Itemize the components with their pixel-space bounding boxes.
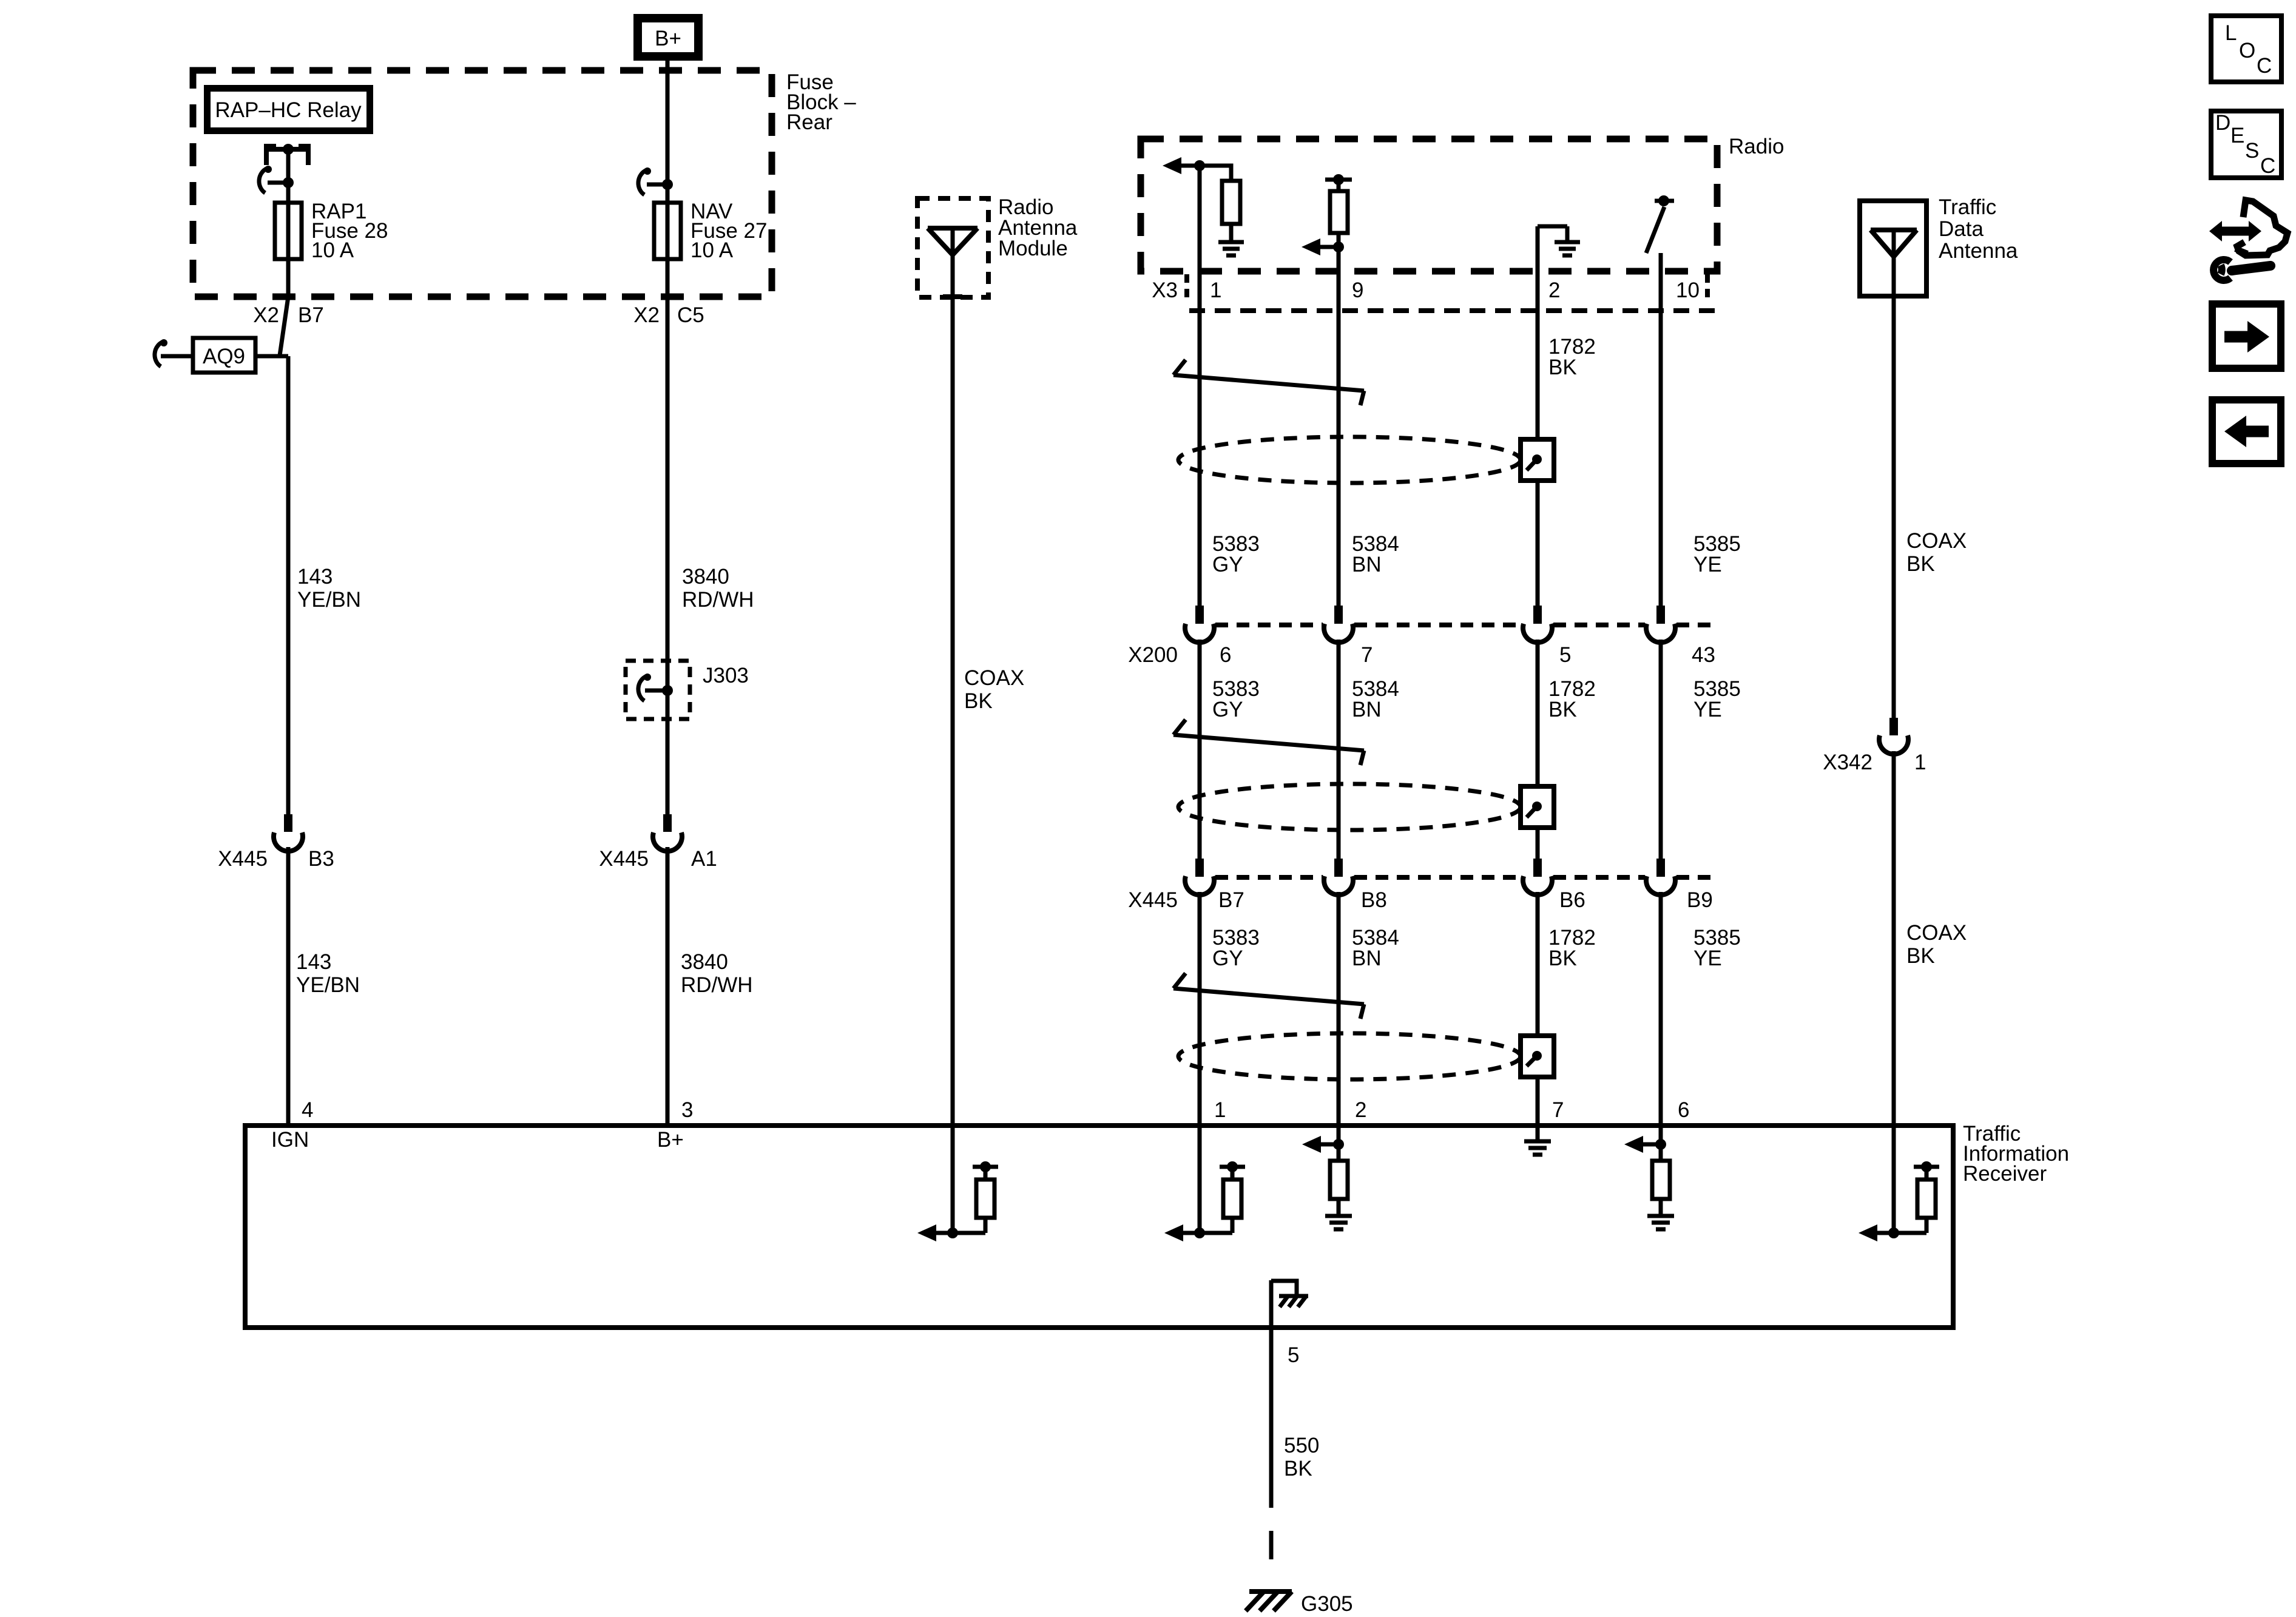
svg-text:5: 5 [1559,643,1571,667]
svg-text:Receiver: Receiver [1963,1162,2047,1186]
svg-text:1: 1 [1210,279,1221,302]
svg-text:YE/BN: YE/BN [297,588,361,612]
svg-text:Rear: Rear [786,110,832,134]
svg-text:GY: GY [1212,553,1243,576]
svg-text:Module: Module [998,237,1068,260]
svg-text:10: 10 [1676,279,1700,302]
svg-text:A1: A1 [691,847,717,871]
svg-text:9: 9 [1352,279,1363,302]
svg-text:7: 7 [1552,1098,1564,1122]
svg-text:B9: B9 [1687,888,1713,912]
svg-text:YE: YE [1693,947,1722,970]
svg-text:143: 143 [297,565,333,589]
svg-text:Traffic: Traffic [1939,195,1996,219]
svg-text:BK: BK [964,689,993,713]
svg-text:1: 1 [1914,751,1926,774]
svg-text:C: C [2257,54,2272,78]
svg-text:BK: BK [1906,944,1935,968]
svg-text:YE: YE [1693,698,1722,721]
svg-text:143: 143 [296,950,331,974]
svg-text:S: S [2245,139,2259,163]
svg-text:E: E [2230,124,2244,147]
svg-text:1: 1 [1214,1098,1226,1122]
svg-text:O: O [2239,39,2255,62]
svg-text:3840: 3840 [681,950,728,974]
svg-text:6: 6 [1678,1098,1689,1122]
svg-text:D: D [2215,111,2230,135]
svg-text:J303: J303 [703,664,749,687]
svg-text:YE: YE [1693,553,1722,576]
svg-text:X445: X445 [599,847,649,871]
svg-text:10 A: 10 A [690,238,734,262]
svg-text:RD/WH: RD/WH [682,588,754,612]
svg-text:BK: BK [1548,356,1577,379]
svg-text:BN: BN [1352,698,1382,721]
svg-text:GY: GY [1212,698,1243,721]
svg-text:B3: B3 [308,847,334,871]
svg-text:X342: X342 [1823,751,1872,774]
svg-text:L: L [2225,21,2237,45]
svg-text:5: 5 [1288,1343,1299,1367]
svg-text:BK: BK [1548,698,1577,721]
svg-text:X445: X445 [218,847,268,871]
svg-text:G305: G305 [1301,1592,1353,1616]
svg-text:B8: B8 [1361,888,1387,912]
svg-text:BK: BK [1548,947,1577,970]
svg-text:BN: BN [1352,947,1382,970]
svg-text:550: 550 [1284,1434,1319,1457]
svg-text:YE/BN: YE/BN [296,973,360,997]
svg-text:BK: BK [1906,552,1935,576]
svg-text:7: 7 [1361,643,1373,667]
svg-text:X2: X2 [253,303,279,327]
svg-text:X200: X200 [1128,643,1178,667]
svg-text:RAP–HC Relay: RAP–HC Relay [215,98,362,122]
svg-text:BK: BK [1284,1457,1312,1480]
svg-text:3840: 3840 [682,565,729,589]
svg-text:Antenna: Antenna [1939,239,2018,263]
svg-text:BN: BN [1352,553,1382,576]
svg-text:COAX: COAX [1906,921,1967,945]
svg-text:4: 4 [302,1098,313,1122]
svg-text:IGN: IGN [271,1128,309,1152]
svg-text:AQ9: AQ9 [203,345,245,368]
svg-text:GY: GY [1212,947,1243,970]
svg-text:43: 43 [1692,643,1715,667]
svg-text:C: C [2260,154,2275,178]
svg-text:X2: X2 [633,303,660,327]
svg-text:X3: X3 [1152,279,1178,302]
svg-text:2: 2 [1548,279,1560,302]
svg-text:COAX: COAX [1906,529,1967,553]
svg-text:B+: B+ [655,27,681,50]
svg-text:2: 2 [1355,1098,1366,1122]
svg-text:C5: C5 [677,303,704,327]
svg-text:3: 3 [681,1098,693,1122]
svg-text:X445: X445 [1128,888,1178,912]
svg-text:10 A: 10 A [311,238,354,262]
svg-text:Radio: Radio [1729,135,1784,158]
svg-text:B7: B7 [1218,888,1244,912]
svg-text:RD/WH: RD/WH [681,973,753,997]
svg-text:B+: B+ [657,1128,684,1152]
svg-text:B6: B6 [1559,888,1585,912]
svg-text:6: 6 [1220,643,1231,667]
svg-text:COAX: COAX [964,666,1024,690]
svg-text:Data: Data [1939,217,1984,241]
svg-text:B7: B7 [298,303,324,327]
